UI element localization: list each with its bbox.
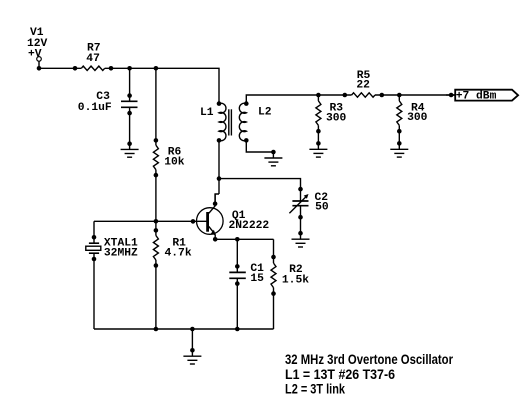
node R1 junction on bottom rail: [154, 327, 159, 332]
node C3 junction on rail: [127, 66, 132, 71]
wire R2 column: [273, 239, 275, 263]
inductor L2 secondary coil: [239, 103, 246, 141]
ground below R3: [316, 141, 321, 146]
resistor R1: [153, 236, 158, 261]
wire R6 column: [155, 68, 157, 145]
ground below C2: [298, 231, 303, 236]
svg-text:10k: 10k: [164, 157, 185, 169]
capacitor C1: [229, 271, 246, 273]
svg-text:50: 50: [315, 201, 329, 213]
output port +7 dBm: [455, 90, 518, 101]
transistor Q1: [197, 208, 224, 235]
svg-text:22: 22: [356, 80, 370, 92]
svg-text:15: 15: [250, 273, 264, 285]
resistor R4: [397, 101, 402, 126]
wire base: [94, 220, 207, 222]
crystal XTAL1: [89, 242, 99, 244]
wire L2 top to output rail: [246, 95, 351, 104]
transformer core: [228, 109, 230, 135]
node base-R1 junction: [154, 219, 159, 224]
svg-text:32 MHz 3rd Overtone Oscillator: 32 MHz 3rd Overtone Oscillator: [285, 352, 454, 367]
wire L1 bottom / collector node: [218, 140, 220, 194]
node C1 junction on emitter rail: [235, 237, 240, 242]
svg-text:L2 = 3T link: L2 = 3T link: [285, 382, 345, 397]
svg-text:1.5k: 1.5k: [282, 275, 309, 287]
svg-text:L1: L1: [200, 107, 214, 119]
resistor R5: [352, 93, 375, 97]
node L1-collector-C2 junction: [217, 176, 222, 181]
svg-text:0.1uF: 0.1uF: [78, 102, 112, 114]
svg-text:L2: L2: [258, 106, 272, 118]
capacitor C3: [121, 100, 138, 102]
wire C2 to ground: [300, 206, 302, 240]
wire +12V top rail: [39, 67, 81, 69]
svg-text:+V: +V: [28, 48, 42, 60]
svg-text:+7 dBm: +7 dBm: [456, 90, 497, 102]
wire output stub: [446, 94, 455, 96]
svg-text:32MHZ: 32MHZ: [104, 247, 138, 259]
wire C3 column: [129, 68, 131, 101]
wire L2 bottom to ground: [246, 140, 273, 152]
wire bottom ground rail: [94, 328, 274, 330]
node C1 junction on bottom rail: [235, 327, 240, 332]
wire XTAL column: [93, 221, 95, 243]
ground main: [191, 329, 193, 356]
svg-text:2N2222: 2N2222: [229, 220, 270, 232]
resistor R7: [81, 66, 104, 70]
wire emitter rail: [215, 238, 273, 240]
ground at L2: [271, 150, 276, 155]
resistor R2: [271, 263, 276, 288]
inductor L1 primary coil: [219, 103, 226, 141]
svg-text:4.7k: 4.7k: [165, 247, 192, 259]
node R6 junction on rail: [154, 66, 159, 71]
resistor R6: [153, 145, 158, 170]
ground below R4: [397, 141, 402, 146]
wire C1 column: [236, 239, 238, 272]
svg-text:L1 = 13T #26 T37-6: L1 = 13T #26 T37-6: [285, 367, 395, 382]
node output junction: [449, 93, 454, 98]
node V+ junction at terminal: [37, 66, 42, 71]
power terminal V1 +V: [37, 57, 42, 62]
wire feedback to C2: [219, 179, 301, 201]
ground below C3: [127, 141, 132, 146]
svg-text:47: 47: [86, 53, 100, 65]
node ground stem junction: [190, 327, 195, 332]
resistor R3: [316, 101, 321, 126]
svg-text:300: 300: [407, 112, 428, 124]
svg-text:300: 300: [326, 112, 347, 124]
capacitor C2 variable: [292, 200, 308, 202]
